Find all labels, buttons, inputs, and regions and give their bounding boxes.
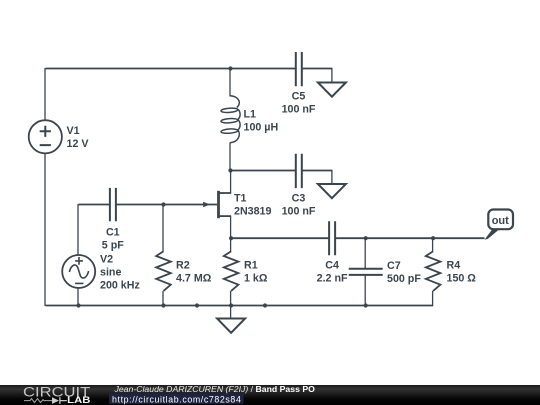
CircuitLab logo wordmark <box>23 384 91 405</box>
node junction b <box>263 303 267 307</box>
node R2 bottom <box>161 303 165 307</box>
ground for C3 <box>318 184 346 198</box>
svg-text:200 kHz: 200 kHz <box>100 280 140 292</box>
svg-text:100 nF: 100 nF <box>282 206 316 218</box>
node L1 top junction <box>228 66 232 70</box>
resistor R4 <box>426 238 441 306</box>
svg-text:R1: R1 <box>244 260 258 272</box>
svg-text:C5: C5 <box>292 91 306 103</box>
svg-text:C7: C7 <box>387 260 401 272</box>
node V2 bottom <box>76 303 80 307</box>
node gate junction R2 <box>161 202 165 206</box>
svg-text:1 kΩ: 1 kΩ <box>244 273 268 285</box>
ground for C5 <box>318 83 346 97</box>
svg-text:sine: sine <box>100 267 121 279</box>
svg-text:100 nF: 100 nF <box>282 104 316 116</box>
voltage source V2 <box>62 204 95 306</box>
wire bottom rail right segment to R4 <box>366 305 433 307</box>
node R4 junction <box>431 236 435 240</box>
inductor L1 <box>221 68 240 170</box>
node C7 junction <box>364 236 368 240</box>
capacitor C5 <box>296 52 333 86</box>
svg-text:R2: R2 <box>176 260 190 272</box>
svg-text:R4: R4 <box>447 260 461 272</box>
capacitor C7 <box>349 238 383 306</box>
svg-text:T1: T1 <box>234 193 247 205</box>
ground main <box>217 305 245 333</box>
svg-text:4.7 MΩ: 4.7 MΩ <box>176 273 212 285</box>
resistor R1 <box>224 238 239 306</box>
wire drain rail to C3 <box>231 170 296 172</box>
transistor T1 JFET <box>116 170 231 239</box>
out flag <box>485 210 514 240</box>
svg-text:5 pF: 5 pF <box>102 240 124 252</box>
svg-text:12 V: 12 V <box>67 138 90 150</box>
capacitor C1 <box>79 188 116 221</box>
svg-text:500 pF: 500 pF <box>387 273 421 285</box>
wire V1 bottom lead down to bottom rail <box>44 153 46 306</box>
node source junction R1 top <box>229 236 233 240</box>
wire top rail from V1 to C5 <box>46 68 296 70</box>
svg-text:Jean-Claude DARIZCUREN (F2IJ): Jean-Claude DARIZCUREN (F2IJ) / Band Pas… <box>114 384 316 394</box>
svg-text:http://circuitlab.com/c782s84: http://circuitlab.com/c782s84 <box>112 394 241 404</box>
svg-text:LAB: LAB <box>67 395 91 405</box>
svg-text:V1: V1 <box>67 125 80 137</box>
wire source rail to out <box>366 237 485 239</box>
svg-text:2N3819: 2N3819 <box>234 206 271 218</box>
resistor R2 <box>156 204 171 306</box>
wire V1 top lead <box>44 68 46 120</box>
svg-text:V2: V2 <box>100 254 113 266</box>
capacitor C3 <box>296 154 333 188</box>
footer bar <box>0 385 540 405</box>
node R1 bottom <box>229 303 233 307</box>
svg-text:C3: C3 <box>292 193 306 205</box>
svg-text:C4: C4 <box>325 260 339 272</box>
capacitor C4 <box>329 221 366 255</box>
svg-text:C1: C1 <box>106 227 120 239</box>
svg-text:2.2 nF: 2.2 nF <box>317 273 348 285</box>
node C7 bottom <box>364 303 368 307</box>
wire source rail to C4 <box>231 237 329 239</box>
footer url highlight box <box>109 393 244 403</box>
wire bottom rail <box>46 305 366 307</box>
node drain junction <box>228 168 232 172</box>
node junction a <box>195 303 199 307</box>
svg-text:100 µH: 100 µH <box>244 122 279 134</box>
svg-text:L1: L1 <box>244 109 257 121</box>
voltage source V1 <box>29 120 62 153</box>
svg-text:out: out <box>492 215 509 227</box>
svg-text:150 Ω: 150 Ω <box>447 273 477 285</box>
